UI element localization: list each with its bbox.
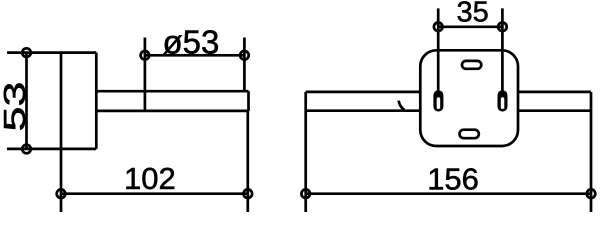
left view: arm/ring band bottom edge [96,110,248,113]
left view: arm band right end cap [247,91,250,111]
left view: wall plate left edge + dimension extension down [60,53,63,212]
right view: oval slot top [462,61,481,69]
right view: rail bottom edge right segment [518,109,591,112]
svg-text:35: 35 [457,0,489,29]
dimension line 35 [438,25,502,28]
right view: keyhole slot right (solid) [498,90,508,111]
left view: wall plate right edge [95,53,98,149]
dimension terminator circle 156 left [301,189,310,198]
right view: oval slot bottom [460,130,479,139]
right view: keyhole slot left (solid) [433,90,443,111]
right view: keyhole slot left white slit [437,97,441,109]
dimension terminator circle left [141,51,150,60]
svg-text:53: 53 [0,81,32,131]
left view: wall plate top edge + extension line [7,51,96,54]
extension line right of 102 [246,111,249,212]
extension line 35 right [501,8,504,95]
right view: wall plate rounded square [420,50,518,146]
extension line left of diameter 53 (through band) [144,38,147,111]
right view: rail top edge left segment [306,91,421,94]
dimension terminator circle top [22,48,31,57]
dimension terminator circle right [240,51,249,60]
dimension line 53 (vertical) [25,53,28,149]
svg-text:102: 102 [124,161,176,196]
extension line right of diameter 53 [243,38,246,92]
right view: rail right end + extension line 156 right [590,92,593,212]
right view: rail left end + extension line 156 left [304,92,307,212]
svg-text:ø53: ø53 [163,24,220,61]
dimension terminator circle 35 left [434,23,443,32]
dimension terminator circle 102 left [57,189,66,198]
dimension terminator circle 156 right [587,189,596,198]
dimension terminator circle bottom [22,145,31,154]
dimension line 156 [306,192,591,195]
right view: keyhole slot right white slit [501,97,505,109]
dimension line diameter 53 [145,54,245,57]
right view: rail bottom edge left segment [306,109,421,112]
dimension terminator circle 102 right [244,189,253,198]
right view: rail top edge right segment [518,91,591,94]
extension line 35 left [437,8,440,95]
left view: wall plate bottom edge + extension line [7,148,96,151]
dimension terminator circle 35 right [498,23,507,32]
dimension line 102 [61,192,248,195]
right view: curve tick on rail [399,101,405,110]
left view: arm/ring band top edge [96,90,248,93]
svg-text:156: 156 [427,161,479,196]
